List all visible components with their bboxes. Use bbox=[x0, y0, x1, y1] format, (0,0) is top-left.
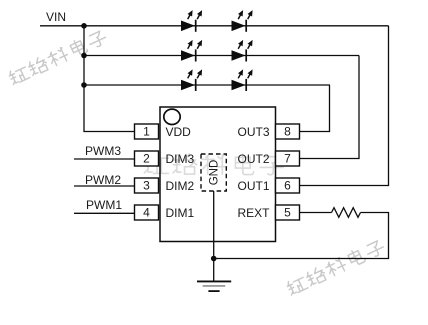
wire resistor to bottom ground bus bbox=[214, 213, 389, 259]
svg-text:OUT2: OUT2 bbox=[237, 152, 269, 166]
IC U1 body (LED driver) bbox=[160, 107, 276, 242]
LED D6 (string3 second) bbox=[232, 69, 253, 91]
svg-text:PWM2: PWM2 bbox=[85, 173, 121, 187]
svg-text:PWM1: PWM1 bbox=[86, 198, 122, 212]
junction node row3 bbox=[81, 82, 87, 88]
ground symbol bbox=[197, 281, 231, 291]
pin 1 box bbox=[135, 124, 159, 139]
wire PWM3 to pin 2 bbox=[74, 158, 135, 160]
junction node row2 bbox=[81, 53, 87, 59]
svg-text:OUT3: OUT3 bbox=[237, 125, 269, 139]
pin 4 box bbox=[135, 205, 159, 220]
svg-text:5: 5 bbox=[284, 206, 291, 220]
pin 5 box bbox=[276, 205, 300, 220]
pin 3 box bbox=[135, 178, 159, 193]
svg-text:7: 7 bbox=[284, 152, 291, 166]
wire pin 6 to LED string 1 bbox=[300, 26, 389, 186]
IC pin-1 indicator circle bbox=[164, 109, 180, 124]
wire VIN rail row1 horizontal bbox=[40, 25, 389, 27]
GND pad (dashed box, rotated label) bbox=[201, 154, 226, 191]
svg-text:4: 4 bbox=[143, 206, 150, 220]
svg-text:8: 8 bbox=[284, 125, 291, 139]
svg-text:GND: GND bbox=[209, 160, 221, 186]
wire PWM1 to pin 4 bbox=[74, 212, 135, 214]
wire left rail vertical to pin 1 bbox=[84, 26, 135, 132]
svg-text:1: 1 bbox=[143, 125, 150, 139]
svg-text:OUT1: OUT1 bbox=[237, 179, 269, 193]
svg-text:6: 6 bbox=[284, 179, 291, 193]
watermark bottom-right (rotated brand text) bbox=[286, 238, 386, 297]
watermark center horizontal (brand text behind IC) bbox=[144, 154, 283, 175]
svg-text:VIN: VIN bbox=[46, 10, 66, 24]
wire row3 horizontal bbox=[84, 84, 330, 86]
svg-text:DIM1: DIM1 bbox=[166, 206, 195, 220]
svg-text:DIM3: DIM3 bbox=[166, 152, 195, 166]
LED D2 (string1 second) bbox=[232, 10, 253, 32]
LED D3 (string2 first) bbox=[181, 40, 202, 62]
pin 7 box bbox=[276, 151, 300, 166]
junction node row1 bbox=[81, 23, 87, 29]
LED D5 (string3 first) bbox=[181, 69, 202, 91]
svg-text:DIM2: DIM2 bbox=[166, 179, 195, 193]
svg-text:2: 2 bbox=[143, 152, 150, 166]
wire pin 8 to LED string 3 bbox=[300, 85, 330, 132]
resistor REXT (no designator) bbox=[332, 208, 361, 218]
svg-text:REXT: REXT bbox=[237, 206, 270, 220]
LED D1 (string1 first) bbox=[181, 10, 202, 32]
wire row2 horizontal bbox=[84, 55, 359, 57]
svg-text:PWM3: PWM3 bbox=[85, 144, 121, 158]
watermark top-left (rotated brand text) bbox=[8, 28, 108, 86]
svg-text:3: 3 bbox=[143, 179, 150, 193]
wire pin 5 to resistor bbox=[300, 212, 332, 214]
pin 2 box bbox=[135, 151, 159, 166]
svg-text:VDD: VDD bbox=[166, 125, 192, 139]
pin 6 box bbox=[276, 178, 300, 193]
wire PWM2 to pin 3 bbox=[74, 185, 135, 187]
junction node ground bus bbox=[211, 256, 217, 262]
LED D4 (string2 second) bbox=[232, 40, 253, 62]
pin 8 box bbox=[276, 124, 300, 139]
wire pin 7 to LED string 2 bbox=[300, 56, 360, 159]
wire GND stem from IC to ground bbox=[213, 191, 215, 281]
